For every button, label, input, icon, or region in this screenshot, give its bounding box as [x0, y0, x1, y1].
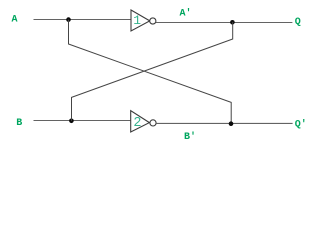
wire A input to inverter U1: [34, 19, 132, 21]
svg-text:2: 2: [133, 116, 141, 131]
svg-text:B: B: [16, 118, 22, 129]
svg-text:1: 1: [133, 13, 141, 28]
svg-text:A': A': [180, 8, 192, 20]
svg-text:A: A: [12, 14, 18, 25]
inverter U2 output bubble: [150, 120, 156, 126]
inverter U2 triangle: [131, 111, 150, 132]
junction dot on B wire: [69, 119, 74, 124]
wire B input to inverter U2: [34, 120, 131, 122]
svg-text:B': B': [184, 131, 196, 143]
junction dot on A wire: [66, 17, 71, 22]
wire cross-couple from A node down to Q' node: [69, 20, 232, 124]
wire inverter U1 output to Q: [156, 22, 292, 24]
wire cross-couple from B node up to Q node: [72, 22, 233, 121]
inverter U1 triangle: [131, 10, 150, 31]
svg-text:Q': Q': [295, 118, 307, 130]
junction dot on Q' wire: [229, 121, 234, 126]
inverter U1 output bubble: [150, 18, 156, 24]
junction dot on Q wire: [230, 20, 235, 25]
svg-text:Q: Q: [295, 17, 301, 28]
wire inverter U2 output to Q': [156, 122, 292, 124]
